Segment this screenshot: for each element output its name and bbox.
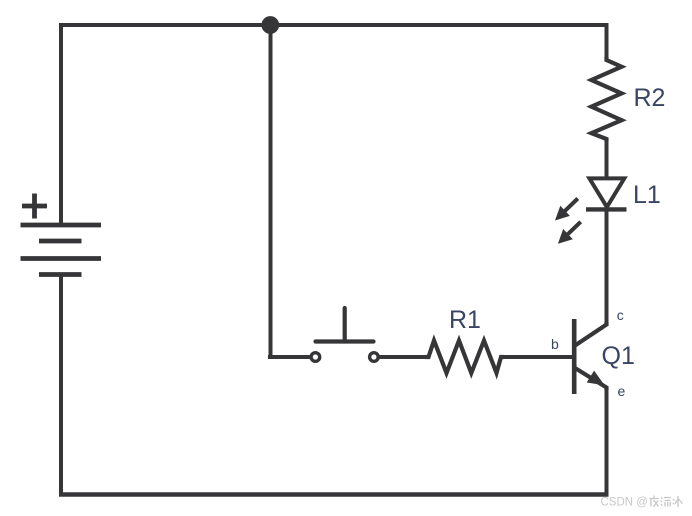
wire: horizontal to switch left terminal xyxy=(268,355,310,359)
wire: top rail xyxy=(59,23,607,27)
resistor R2 xyxy=(591,57,621,141)
wire: bottom rail xyxy=(59,492,609,496)
transistor Q1 emitter arrowhead xyxy=(587,371,605,386)
switch S1 right terminal circle xyxy=(370,353,379,362)
resistor R1 xyxy=(425,341,504,374)
switch S1 left terminal circle xyxy=(311,353,320,362)
svg-text:L1: L1 xyxy=(633,181,661,209)
svg-text:Q1: Q1 xyxy=(602,342,635,370)
svg-text:R1: R1 xyxy=(449,306,481,334)
battery B1 plus sign xyxy=(22,194,47,219)
svg-text:b: b xyxy=(551,336,559,352)
LED L1 light arrow 1 xyxy=(564,199,578,212)
wire: battery - down to bottom rail xyxy=(59,275,63,497)
battery B1 plate 2 (short) xyxy=(39,239,82,244)
switch S1 actuator stem xyxy=(343,308,347,342)
LED L1 light arrow 2 xyxy=(567,222,581,235)
switch S1 actuator bar xyxy=(316,339,374,343)
transistor Q1 emitter diagonal xyxy=(575,368,607,390)
wire: emitter vertical down to bottom rail xyxy=(605,388,609,497)
LED L1 cathode bar xyxy=(586,207,627,211)
node: top junction xyxy=(261,16,279,34)
svg-text:CSDN @: CSDN @ xyxy=(601,497,648,509)
wire: junction down to switch branch xyxy=(269,25,273,357)
LED L1 triangle xyxy=(589,178,624,207)
wire: left vertical (battery + to top rail) xyxy=(59,23,63,225)
battery B1 plate 3 (long) xyxy=(21,256,102,261)
wire: switch right terminal to R1 xyxy=(380,355,427,359)
transistor Q1 collector diagonal xyxy=(575,322,607,346)
battery B1 plate 1 (long) xyxy=(21,223,102,228)
wire: R1 to transistor base xyxy=(503,355,573,359)
battery B1 plate 4 (short) xyxy=(39,272,82,277)
svg-text:c: c xyxy=(617,307,624,323)
wire: collector vertical up to LED xyxy=(605,208,609,326)
wire: R2 top to top rail xyxy=(605,23,609,59)
wire: LED top up to R2 xyxy=(605,138,609,180)
svg-text:e: e xyxy=(618,383,626,399)
transistor Q1 base bar xyxy=(572,319,577,394)
svg-text:R2: R2 xyxy=(634,84,666,112)
